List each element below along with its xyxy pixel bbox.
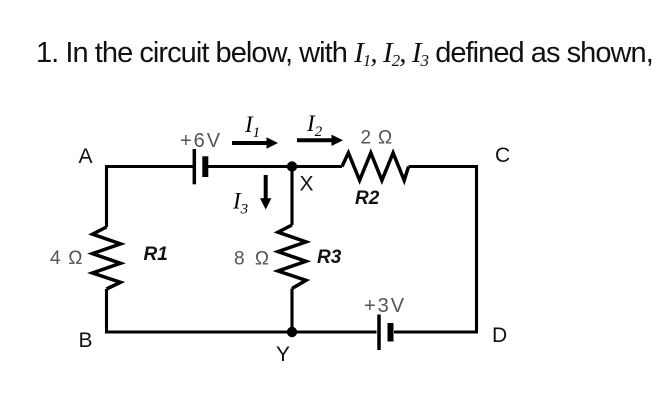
resistor R2: [342, 153, 409, 180]
wire node X to R3: [290, 167, 293, 226]
svg-text:4 Ω: 4 Ω: [50, 248, 84, 269]
current arrow I2: [297, 135, 343, 146]
svg-text:A: A: [79, 145, 93, 168]
battery +6V plates: [194, 149, 205, 184]
svg-text:X: X: [300, 173, 314, 196]
svg-text:R2: R2: [355, 188, 380, 209]
current arrow I1: [232, 137, 278, 148]
svg-text:8 Ω: 8 Ω: [234, 249, 272, 270]
resistor R3: [278, 225, 306, 289]
svg-text:C: C: [495, 144, 510, 167]
svg-text:R3: R3: [317, 247, 342, 268]
wire +6V battery to corner A down to R1: [107, 167, 195, 228]
svg-text:I2: I2: [306, 111, 323, 140]
svg-text:+6V: +6V: [180, 130, 222, 152]
svg-text:B: B: [79, 329, 93, 352]
problem title: [36, 37, 653, 70]
svg-text:I3: I3: [232, 189, 248, 218]
svg-text:+3V: +3V: [364, 295, 406, 317]
resistor R1: [93, 227, 121, 289]
svg-text:D: D: [492, 324, 507, 347]
wire +3V battery to corner D up to corner C to R2: [394, 167, 477, 333]
svg-text:R1: R1: [144, 244, 168, 265]
svg-text:Y: Y: [276, 343, 290, 366]
svg-text:I1: I1: [244, 112, 260, 141]
wire +6V battery through node X to R2: [206, 165, 343, 168]
battery +3V plates: [379, 315, 391, 351]
wire R1 to corner B to +3V battery: [107, 289, 377, 332]
node Y junction dot: [287, 327, 297, 337]
node X junction dot: [287, 161, 297, 171]
current arrow I3: [260, 175, 271, 210]
wire R3 to node Y: [290, 289, 293, 333]
svg-text:2 Ω: 2 Ω: [361, 128, 393, 149]
